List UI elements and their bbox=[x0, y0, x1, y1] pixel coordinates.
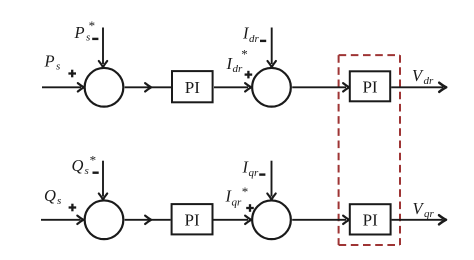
plus sign at summing junction S4 bbox=[246, 204, 254, 212]
label V_qr bbox=[413, 199, 435, 220]
svg-text:P: P bbox=[44, 52, 55, 71]
label I_qr* bbox=[225, 184, 249, 209]
svg-text:qr: qr bbox=[424, 208, 435, 220]
plus sign at summing junction S1 bbox=[68, 70, 76, 78]
svg-text:*: * bbox=[89, 18, 96, 33]
label I_qr bbox=[242, 157, 260, 179]
PI controller block PI2 bbox=[350, 71, 390, 101]
wire Q_s* vertical input bbox=[99, 161, 107, 200]
minus sign for P_s* bbox=[92, 38, 98, 40]
label Q_s bbox=[44, 186, 61, 207]
svg-text:dr: dr bbox=[424, 75, 435, 87]
label Q_s* bbox=[72, 153, 97, 177]
minus sign for Q_s* bbox=[93, 171, 99, 173]
svg-text:Q: Q bbox=[44, 186, 56, 205]
svg-text:dr: dr bbox=[233, 63, 244, 75]
svg-text:dr: dr bbox=[249, 33, 260, 45]
summing junction S3 bbox=[85, 200, 124, 239]
label V_dr bbox=[412, 66, 434, 87]
wire P_s input bbox=[42, 83, 84, 91]
plus sign at summing junction S3 bbox=[69, 204, 77, 212]
wire V_qr output bbox=[392, 215, 446, 224]
wire V_dr output bbox=[391, 83, 446, 92]
label P_s* bbox=[74, 18, 96, 44]
wire PI3 to S4 bbox=[214, 216, 252, 224]
PI controller block PI3 bbox=[172, 204, 213, 234]
wire Q_s input bbox=[41, 216, 83, 224]
wire S3 to PI3 bbox=[125, 216, 171, 224]
minus sign for I_qr bbox=[259, 173, 265, 175]
svg-text:s: s bbox=[85, 165, 89, 177]
wire P_s* vertical input bbox=[99, 28, 107, 68]
svg-text:PI: PI bbox=[185, 211, 200, 230]
svg-text:s: s bbox=[56, 61, 60, 73]
svg-text:*: * bbox=[242, 184, 249, 199]
plus sign at summing junction S2 bbox=[245, 71, 253, 79]
svg-text:Q: Q bbox=[72, 156, 84, 175]
wire S4 to PI4 bbox=[292, 216, 349, 224]
label P_s bbox=[44, 52, 61, 73]
red dashed converter box bbox=[339, 55, 400, 245]
svg-text:s: s bbox=[57, 195, 61, 207]
svg-text:P: P bbox=[74, 23, 85, 42]
PI controller block PI1 bbox=[172, 71, 213, 102]
minus sign for I_dr bbox=[260, 40, 266, 42]
svg-text:qr: qr bbox=[232, 197, 243, 209]
label I_dr bbox=[242, 24, 260, 45]
summing junction S2 bbox=[252, 68, 291, 107]
label I_dr* bbox=[226, 47, 248, 76]
svg-text:PI: PI bbox=[363, 211, 378, 230]
svg-text:*: * bbox=[90, 153, 97, 168]
wire I_dr vertical input bbox=[268, 28, 276, 68]
wire S1 to PI1 bbox=[125, 83, 171, 91]
PI controller block PI4 bbox=[350, 204, 391, 234]
svg-text:qr: qr bbox=[249, 167, 260, 179]
wire S2 to PI2 bbox=[292, 83, 349, 91]
summing junction S4 bbox=[252, 200, 291, 239]
summing junction S1 bbox=[85, 68, 124, 107]
wire PI1 to S2 bbox=[214, 83, 251, 91]
svg-text:s: s bbox=[86, 32, 90, 44]
wire I_qr vertical input bbox=[267, 161, 275, 200]
svg-text:PI: PI bbox=[185, 78, 200, 97]
svg-text:*: * bbox=[241, 47, 248, 62]
svg-text:PI: PI bbox=[362, 77, 377, 96]
